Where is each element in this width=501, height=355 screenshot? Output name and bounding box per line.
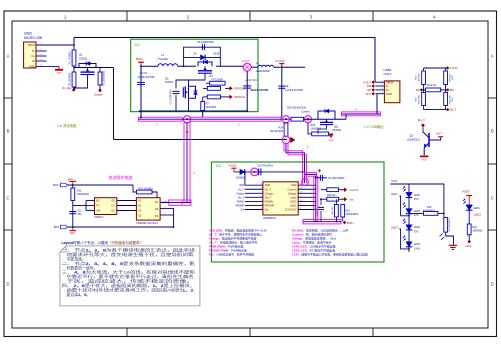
resistor R25 current sense (291, 117, 304, 121)
svg-text:Charge: Charge (94, 93, 103, 97)
svg-text:1-B 充电电路: 1-B 充电电路 (57, 123, 77, 128)
wire VDD drop (244, 172, 246, 186)
IC U3 stubs (86, 200, 95, 202)
svg-text:R8 51K: R8 51K (419, 73, 421, 81)
connector USB1 pin stubs (36, 44, 74, 46)
svg-text:D: D (491, 282, 494, 287)
resistor R22 (341, 205, 345, 218)
svg-text:V-OUT: V-OUT (363, 80, 371, 84)
svg-text:USB1: USB1 (24, 32, 33, 36)
bus vertical to protection (184, 123, 190, 203)
block frame controller (211, 162, 384, 262)
wire bar to OUT (376, 94, 378, 114)
svg-text:BAT-: BAT- (70, 232, 75, 235)
ground at Q2 (423, 155, 425, 156)
svg-text:C6 100PF/50V: C6 100PF/50V (197, 40, 214, 44)
wire gate loop (176, 73, 205, 88)
svg-text:R23: R23 (346, 211, 351, 213)
svg-text:C: C (6, 196, 9, 201)
svg-text:VOUT: VOUT (229, 164, 238, 168)
resistor R16 (409, 212, 423, 214)
bus bar to U4 (169, 200, 191, 205)
svg-text:LED2: LED2 (414, 194, 421, 197)
svg-text:DM: DM (367, 84, 371, 88)
bus segment 2 (191, 117, 282, 121)
svg-text:10R/0603: 10R/0603 (473, 230, 484, 232)
svg-text:Current: Current (301, 109, 310, 113)
svg-text:Do_T: Do_T (238, 189, 244, 191)
svg-text:OC: OC (111, 209, 115, 213)
svg-text:D1: D1 (155, 200, 159, 204)
svg-text:DP: DP (367, 88, 371, 92)
svg-text:MICRO USB: MICRO USB (24, 36, 42, 40)
LED LED2 (406, 192, 412, 197)
IC U5 right stubs (298, 184, 315, 186)
note box body (60, 246, 200, 306)
wire R17 to ground (446, 232, 454, 245)
svg-text:LED1: LED1 (290, 203, 297, 207)
resistor R1 (73, 45, 75, 50)
resistor R13 (72, 185, 74, 188)
resistor R7 (201, 102, 205, 111)
net label BAT+ box2 (343, 221, 347, 225)
svg-text:470R/0603: 470R/0603 (423, 209, 435, 212)
svg-text:GND: GND (422, 159, 427, 161)
border row ticks left/right (4, 97, 12, 99)
svg-text:R17 1K/0603: R17 1K/0603 (449, 218, 451, 232)
svg-text:BAT+: BAT+ (347, 221, 354, 225)
svg-text:Sio_T: Sio_T (238, 197, 245, 199)
svg-text:OD: OD (111, 199, 115, 203)
svg-text:PROMP: PROMP (236, 205, 245, 207)
ground symbol at USB1 GND (58, 66, 60, 69)
svg-text:LED8510A: LED8510A (263, 216, 276, 220)
svg-text:C9 100nF/0603: C9 100nF/0603 (328, 177, 345, 180)
svg-text:R11 51K: R11 51K (449, 95, 451, 104)
svg-text:R12 NC: R12 NC (428, 84, 437, 87)
resistor R8 (423, 68, 425, 71)
svg-text:Lamp: Lamp (465, 244, 472, 248)
connector USB1 body (24, 42, 36, 68)
power port BAT- down (70, 230, 77, 232)
wire rail to bus (140, 111, 142, 117)
svg-text:VBUS: VBUS (28, 43, 36, 47)
svg-text:PWMN: PWMN (265, 199, 273, 203)
svg-text:LED1: LED1 (391, 192, 398, 196)
IC U5 left stubs and nets (245, 184, 263, 186)
capacitor C11 (72, 201, 74, 228)
svg-text:C8: C8 (285, 84, 289, 88)
svg-text:CS: CS (111, 204, 115, 208)
svg-text:GND: GND (386, 92, 392, 96)
net label Vin_Det (72, 88, 76, 92)
svg-text:D+: D+ (31, 54, 35, 58)
svg-text:100R/0603: 100R/0603 (77, 193, 89, 196)
wire Q1 drain drop (113, 68, 115, 140)
svg-text:1N5819: 1N5819 (236, 177, 245, 180)
svg-text:PROMP: PROMP (265, 203, 275, 207)
svg-text:Do_T: Do_T (418, 118, 425, 122)
svg-text:R1 1K/0603: R1 1K/0603 (69, 51, 72, 64)
net label Lamp (468, 235, 470, 241)
svg-text:BAT-: BAT- (54, 225, 60, 229)
svg-text:SS26: SS26 (213, 53, 220, 56)
wire long horizontal to sense node (114, 139, 287, 141)
bus junction circle B (283, 116, 290, 123)
svg-text:BAT+: BAT+ (136, 57, 144, 61)
pin arrow PROG N (230, 95, 233, 99)
resistor R3 (99, 68, 101, 73)
svg-text:BAT+: BAT+ (68, 177, 75, 181)
svg-text:1K/F0603: 1K/F0603 (206, 106, 217, 109)
LED LED3 (406, 209, 412, 214)
IC U4 body (136, 198, 160, 220)
net labels USB2 (372, 81, 375, 84)
net port V-OUT right (424, 67, 448, 69)
svg-text:S2: S2 (138, 214, 142, 218)
svg-text:D-: D- (386, 84, 389, 88)
svg-text:B: B (7, 129, 10, 134)
svg-text:100%: 100% (414, 247, 421, 250)
svg-text:PROG/B: PROG/B (235, 87, 245, 91)
net label Charge (98, 88, 102, 92)
resistor R9 (445, 68, 447, 71)
wire LED chain (408, 184, 410, 252)
resistor R10 (422, 93, 426, 106)
pin arrow PROG B (230, 86, 233, 90)
svg-text:Charge: Charge (265, 191, 274, 195)
svg-text:DP: DP (416, 88, 420, 92)
ground arrow at R26 (329, 133, 332, 135)
svg-text:V-OUT: V-OUT (276, 59, 285, 63)
border column ticks top/bottom (126, 11, 128, 21)
svg-text:FS8205A-SOT23-6: FS8205A-SOT23-6 (136, 222, 158, 225)
svg-text:R18: R18 (473, 227, 478, 229)
capacitor C14 (320, 199, 322, 205)
wire BAT- row (68, 226, 174, 228)
svg-text:Vin_Det: Vin_Det (62, 86, 71, 90)
svg-text:Layout时需八个节点：六模块（付别级各与链要求）: Layout时需八个节点：六模块（付别级各与链要求） (62, 240, 143, 245)
svg-text:100KF/0603: 100KF/0603 (346, 214, 359, 216)
svg-text:GND: GND (291, 183, 297, 187)
svg-text:V-OUT: V-OUT (450, 66, 458, 70)
wire U4 to BAT- rail (167, 209, 173, 227)
svg-text:Do_T: Do_T (450, 108, 457, 112)
svg-text:2-L: 2-L (135, 43, 140, 47)
resistor R24 sense to load (284, 123, 288, 136)
svg-text:ID: ID (32, 59, 35, 63)
svg-text:Sio_T: Sio_T (265, 195, 272, 199)
wire Q11 gate (318, 125, 327, 134)
bus drop to charger block (286, 144, 305, 183)
resistor R14 (133, 185, 137, 192)
pin arrow Vio (344, 197, 347, 201)
wire BAT+ rail (141, 65, 158, 67)
svg-text:VDD: VDD (265, 183, 271, 187)
earth ground LED section (449, 244, 457, 246)
svg-text:C14 1uF: C14 1uF (317, 207, 319, 215)
capacitor C7 (173, 90, 180, 92)
svg-text:+C12 C13: +C12 C13 (245, 78, 257, 82)
svg-text:R2 1M/0603: R2 1M/0603 (69, 72, 72, 86)
svg-text:G2: G2 (138, 209, 142, 213)
svg-text:LED3: LED3 (414, 210, 421, 213)
svg-text:GND: GND (329, 140, 334, 142)
svg-text:GND: GND (29, 65, 35, 69)
svg-text:D2: D2 (155, 207, 159, 211)
svg-text:要远离2、8。: 要远离2、8。 (67, 292, 91, 297)
net label DP (420, 88, 423, 91)
pin arrow Current (344, 187, 347, 191)
svg-text:R3 100K/0603: R3 100K/0603 (102, 70, 105, 86)
wire Q1 gate (74, 75, 88, 89)
svg-text:LED2: LED2 (290, 199, 297, 203)
wire BAT+ down leg (140, 66, 142, 111)
resistor R5 (207, 87, 220, 91)
svg-text:G1: G1 (138, 204, 142, 208)
wire bus to Q11 (304, 118, 347, 120)
svg-text:Charge: Charge (236, 192, 244, 195)
svg-text:D: D (6, 282, 9, 287)
svg-text:LED5: LED5 (414, 243, 421, 246)
U4 right stubs (160, 201, 167, 203)
svg-text:22uF6.3V/X5R: 22uF6.3V/X5R (251, 88, 269, 92)
block frame boost circuit (131, 39, 258, 112)
svg-text:D+: D+ (386, 88, 390, 92)
svg-text:OUT1: OUT1 (384, 72, 392, 76)
svg-text:GND: GND (57, 73, 62, 75)
port BAT+ left (61, 183, 68, 187)
svg-text:SI2302: SI2302 (165, 81, 174, 84)
wire VOUT down leg (246, 71, 248, 111)
transistor Q1 (79, 64, 96, 68)
svg-text:D-: D- (32, 49, 35, 53)
LED LED5 (406, 242, 412, 247)
capacitor C9 (316, 177, 328, 179)
svg-text:S1: S1 (138, 199, 142, 203)
svg-text:LMUN2211: LMUN2211 (407, 138, 420, 142)
svg-text:Lamp: Lamp (290, 195, 297, 199)
connector USB2 pin stubs (375, 81, 384, 83)
svg-text:C7 100PF/50V: C7 100PF/50V (171, 89, 173, 105)
svg-text:LED6: LED6 (473, 207, 480, 210)
wire switch output to VOUT (216, 65, 243, 67)
svg-text:OUT: OUT (366, 92, 372, 96)
svg-text:CON.KEY: CON.KEY (285, 208, 297, 212)
transistor Q5 high side (198, 62, 212, 66)
wire BAT+ row (68, 184, 133, 186)
net label Do_T bottom (446, 108, 449, 111)
svg-text:R10 51K: R10 51K (419, 95, 421, 104)
svg-text:A: A (491, 54, 494, 59)
svg-text:R20 NC: R20 NC (327, 194, 336, 197)
transistor Q11 with body diode (318, 111, 335, 119)
transistor Q6 (188, 85, 190, 100)
svg-text:BAT+: BAT+ (53, 183, 60, 187)
resistor R21 (335, 205, 339, 218)
svg-text:SI2301: SI2301 (79, 57, 88, 61)
svg-text:Voltage: Voltage (288, 191, 297, 195)
wire VOUT row box2 (234, 171, 305, 173)
svg-text:OUT: OUT (436, 131, 442, 135)
wire bottom network (423, 106, 425, 110)
svg-text:104: 104 (78, 213, 83, 216)
svg-text:10AD4904R: 10AD4904R (256, 69, 270, 73)
svg-text:A: A (7, 54, 10, 59)
svg-text:VBUS: VBUS (386, 80, 394, 84)
bus junction circle A (184, 116, 191, 123)
inductor L1 (158, 64, 178, 66)
resistor R17 (444, 218, 448, 233)
svg-text:CON：按键引午输出公共状态，参键状态模拟输入端口设置: CON：按键引午输出公共状态，参键状态模拟输入端口设置 (292, 251, 368, 256)
wire L1 to switch node (178, 65, 196, 67)
svg-text:Dis：USB拉高电平、充开平关模拟: Dis：USB拉高电平、充开平关模拟 (209, 251, 254, 256)
capacitor C8 (281, 67, 283, 117)
bus segment 1 (138, 117, 182, 121)
svg-text:LED4: LED4 (414, 226, 421, 229)
svg-text:VOUT: VOUT (462, 190, 470, 194)
wire CON top (390, 184, 444, 218)
resistor R18 (468, 210, 470, 224)
wire Do_T to base (423, 127, 429, 137)
svg-text:2.2uF6.3V/X5R: 2.2uF6.3V/X5R (285, 88, 303, 92)
connector USB2 body (384, 81, 400, 103)
wire top rail to USB2 (74, 38, 375, 83)
svg-text:1-C USB输出: 1-C USB输出 (364, 124, 384, 129)
svg-text:Convert: Convert (287, 187, 296, 191)
svg-text:DW01A: DW01A (95, 216, 104, 219)
resistor R2 (73, 68, 75, 73)
svg-text:NC: NC (96, 199, 100, 203)
svg-text:D3: D3 (155, 214, 159, 218)
svg-text:TD: TD (96, 204, 100, 208)
svg-text:PROG/N: PROG/N (235, 95, 245, 99)
bus loop in box2 (302, 179, 309, 186)
diode D5 (240, 169, 245, 175)
port BAT- left (61, 225, 68, 229)
svg-text:Vio: Vio (350, 197, 354, 201)
svg-text:22uF6.3V/X5R: 22uF6.3V/X5R (138, 75, 155, 79)
port VOUT circle (243, 63, 251, 71)
LED LED4 (406, 225, 412, 230)
svg-text:R9 51K: R9 51K (449, 73, 451, 81)
svg-text:2-C: 2-C (216, 164, 222, 168)
svg-text:白光灯: 白光灯 (474, 213, 482, 217)
resistor R19 (327, 188, 339, 192)
wires U3 to U4 (117, 200, 137, 202)
wire mid DP DM (423, 85, 425, 93)
capacitor C6 top snubber (184, 47, 221, 66)
svg-text:电池保护电路: 电池保护电路 (109, 174, 133, 180)
svg-text:Do_T: Do_T (265, 187, 272, 191)
wire R7 rail to bus (202, 111, 204, 117)
svg-text:VOUT: VOUT (242, 59, 251, 63)
svg-text:HX2300: HX2300 (332, 129, 342, 132)
svg-text:PWMN: PWMN (237, 201, 245, 203)
svg-text:C10 470uF/16: C10 470uF/16 (257, 165, 273, 168)
inductor L2 (258, 65, 274, 67)
svg-text:DM: DM (450, 88, 454, 92)
svg-text:CON: CON (391, 179, 397, 183)
svg-text:VDD: VDD (239, 185, 244, 187)
diode D3 (184, 56, 221, 58)
bus junction circle D with arrow (282, 136, 289, 143)
resistor R11 (444, 93, 448, 106)
resistor R6 (207, 95, 220, 99)
svg-text:C: C (491, 196, 494, 201)
svg-text:Current: Current (350, 188, 359, 192)
IC U3 body (95, 198, 117, 215)
svg-text:R25 50mΩ/1206: R25 50mΩ/1206 (287, 106, 307, 110)
svg-text:Q1: Q1 (79, 53, 83, 57)
junction circle D5 (251, 168, 259, 176)
svg-text:50mΩ/1206: 50mΩ/1206 (270, 130, 284, 133)
svg-text:C4 C5: C4 C5 (140, 71, 148, 75)
svg-text:B: B (491, 129, 494, 134)
svg-text:7.5uH/3A: 7.5uH/3A (157, 57, 168, 61)
svg-text:R21 1M: R21 1M (332, 207, 334, 214)
junction dots (73, 44, 75, 46)
svg-text:VM: VM (96, 209, 100, 213)
bus junction circle C (305, 116, 312, 123)
net port V-OUT (274, 66, 305, 68)
IC U5 body (263, 182, 298, 215)
svg-text:LED2: LED2 (391, 225, 398, 229)
wire VBUS to top rail (73, 38, 75, 46)
wire Q1 channel (74, 67, 114, 69)
wire bottom rail box1 (139, 110, 248, 112)
LED6 lamp (466, 205, 473, 210)
bus output bar (342, 112, 381, 116)
wire VOUT to L2 (251, 66, 258, 68)
net label DM (446, 88, 449, 91)
svg-text:Q2: Q2 (410, 134, 414, 138)
capacitor C10 (258, 168, 260, 175)
